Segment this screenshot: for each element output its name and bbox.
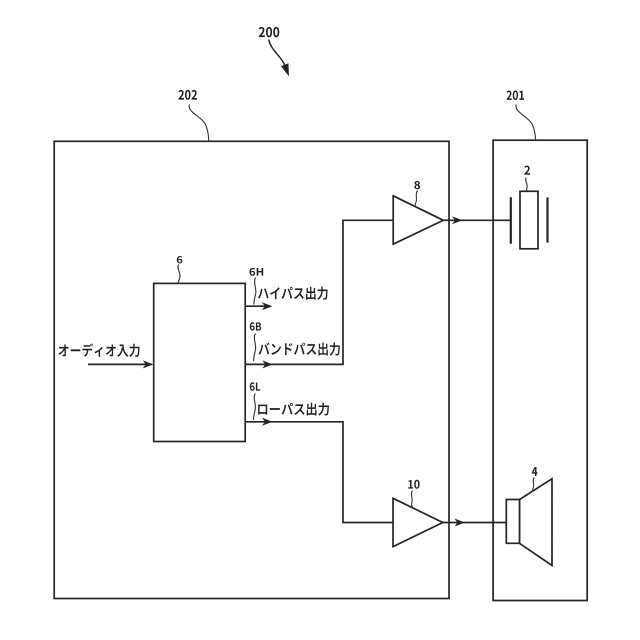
label 6H [249, 268, 263, 276]
arrow from label 200 [269, 40, 289, 77]
wire amplifier 8 to speaker 2 [443, 216, 510, 224]
label 10 [408, 480, 419, 489]
label 6L [250, 382, 260, 391]
wire amplifier 10 to speaker 4 [443, 519, 506, 527]
audio input label (オーディオ入力) [59, 343, 140, 356]
box 201 (speaker unit enclosure) [493, 140, 587, 600]
wire audio input arrow [88, 360, 153, 368]
wire high-pass output arrow [245, 302, 272, 310]
wire low-pass output to amplifier 10 [245, 418, 393, 523]
speaker 2 (tweeter symbol) [511, 191, 548, 249]
leader line 8 [415, 191, 418, 207]
leader line 2 [526, 178, 528, 192]
leader line 6L [253, 394, 255, 421]
wire band-pass output to amplifier 8 [245, 220, 393, 368]
label 2 [524, 166, 530, 175]
label 6 [177, 256, 182, 263]
high-pass output label (ハイパス出力) [258, 287, 328, 300]
label 201 [506, 90, 524, 100]
label 6B [250, 322, 261, 330]
leader line 201 [516, 105, 536, 141]
leader line 202 [189, 105, 209, 141]
amplifier 8 [393, 196, 443, 244]
label 202 [178, 90, 197, 100]
low-pass output label (ローパス出力) [258, 403, 329, 416]
leader line 4 [532, 478, 534, 492]
label 4 [532, 467, 538, 476]
label 8 [414, 181, 420, 189]
leader line 10 [411, 491, 413, 509]
filter block 6 (crossover filter) [154, 283, 246, 441]
label 200 (figure number) [259, 27, 280, 37]
amplifier 10 [393, 498, 443, 546]
leader line 6B [254, 334, 256, 362]
speaker 4 (woofer symbol) [506, 479, 552, 566]
box 202 (crossover/amplifier unit enclosure) [54, 141, 449, 598]
leader line 6H [254, 278, 256, 305]
leader line 6 [178, 265, 180, 284]
band-pass output label (バンドパス出力) [259, 342, 340, 355]
